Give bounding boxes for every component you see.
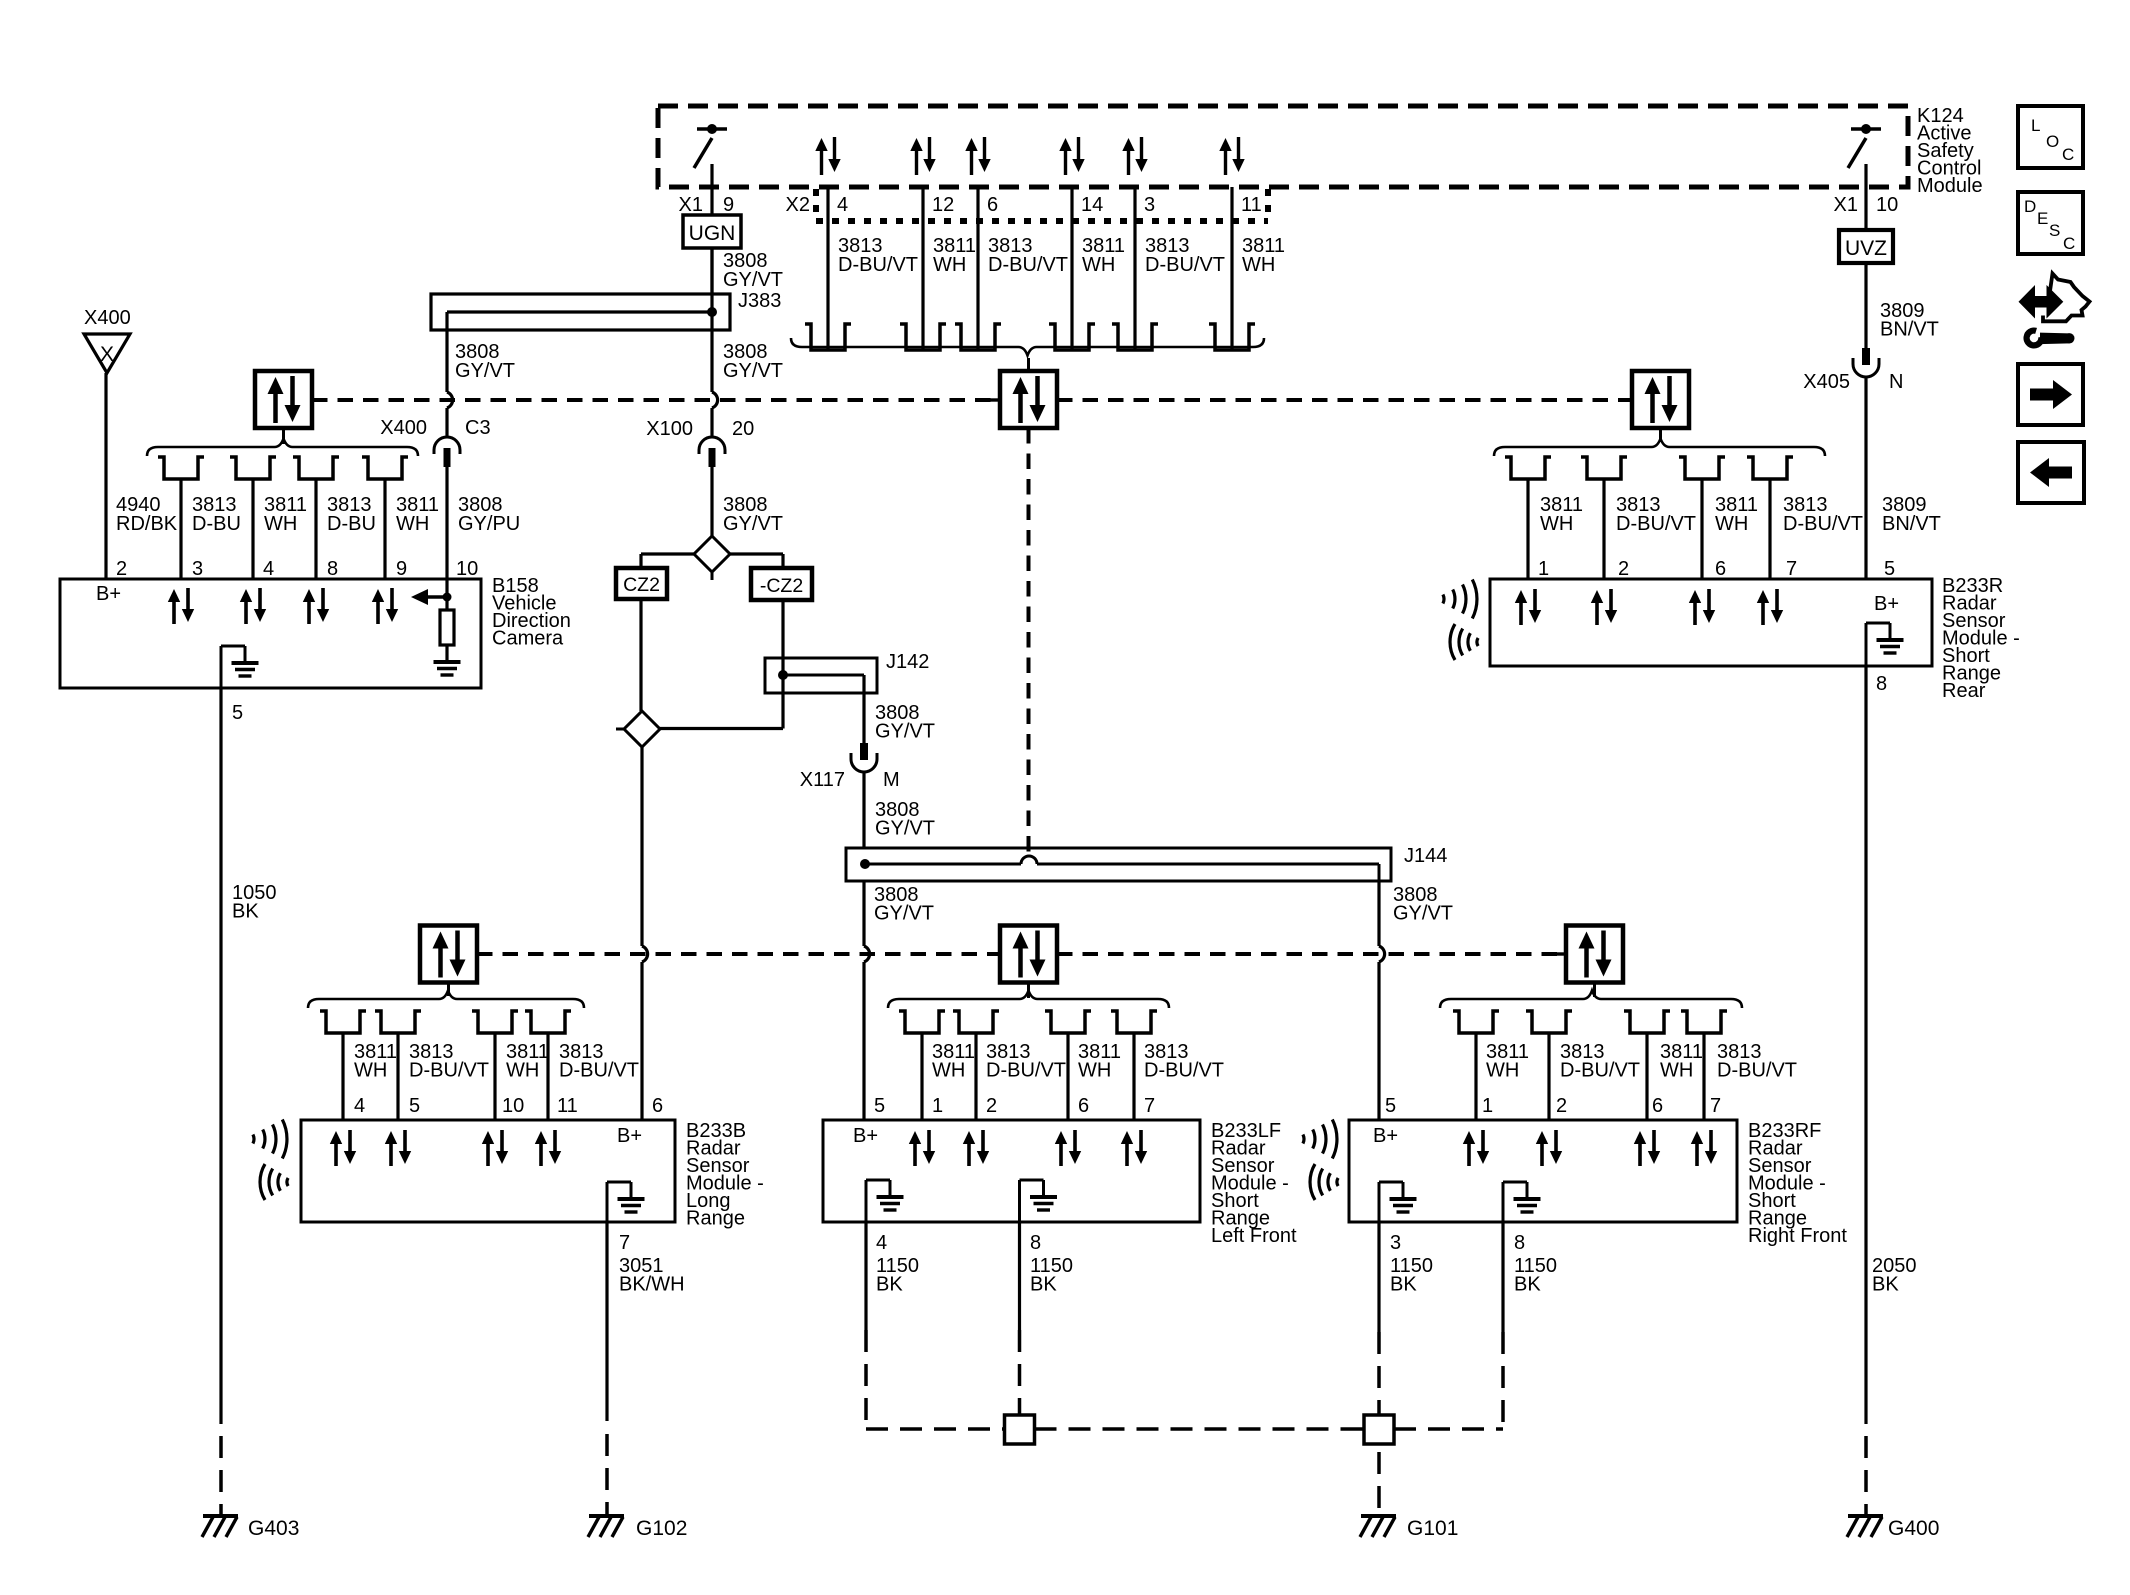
wire label 3811 WH B233R pin 1 xyxy=(1540,494,1583,535)
terminal B233B pin 11 xyxy=(525,1011,571,1033)
wire X2 pin 4 xyxy=(826,187,829,350)
wire label 3811 WH B233LF pin 1 xyxy=(932,1041,975,1082)
signal arrows B233LF pin 2 xyxy=(963,1130,989,1166)
wire label 3813 D-BU/VT X2 pin 3 xyxy=(1145,235,1225,276)
svg-text:D: D xyxy=(2024,197,2036,216)
wire label 3811 WH B233RF pin 1 xyxy=(1486,1041,1529,1082)
wire B233LF pin8 down xyxy=(1018,1222,1021,1330)
svg-text:GY/VT: GY/VT xyxy=(723,269,783,291)
svg-text:G102: G102 xyxy=(636,1517,687,1540)
ground G101 xyxy=(1360,1516,1458,1540)
junction dot J144 xyxy=(860,859,870,869)
wire B158 pin 3 xyxy=(179,479,182,579)
signal arrows B233RF pin 7 xyxy=(1691,1130,1717,1166)
wire X2 pin 11 xyxy=(1230,187,1233,350)
pin label 6 B233R xyxy=(1715,558,1726,580)
svg-text:G403: G403 xyxy=(248,1517,299,1540)
svg-text:D-BU/VT: D-BU/VT xyxy=(838,254,918,276)
svg-text:6: 6 xyxy=(1652,1095,1663,1117)
svg-text:X1: X1 xyxy=(679,194,703,216)
terminal B233R pin 2 xyxy=(1581,457,1627,479)
svg-text:GY/PU: GY/PU xyxy=(458,513,520,535)
net label UGN xyxy=(683,215,741,248)
svg-text:Right Front: Right Front xyxy=(1748,1225,1847,1247)
svg-text:J383: J383 xyxy=(738,290,781,312)
svg-text:2: 2 xyxy=(116,558,127,580)
pin label 7 B233RF xyxy=(1710,1095,1721,1117)
wire label 3813 D-BU B158 pin 3 xyxy=(192,494,241,535)
svg-text:B+: B+ xyxy=(617,1125,642,1147)
signal arrows X2 pin 3 xyxy=(1122,137,1147,175)
brace X2 bundle xyxy=(791,338,1264,356)
svg-text:1: 1 xyxy=(1482,1095,1493,1117)
wire B158 pin 8 xyxy=(314,479,317,579)
net label CZ2 xyxy=(616,568,667,599)
module B233R box xyxy=(1490,579,1932,666)
svg-text:14: 14 xyxy=(1081,194,1103,216)
pin label 1 B233LF xyxy=(932,1095,943,1117)
twisted-pair symbol X2 bundle xyxy=(990,358,1067,428)
signal arrows B233RF pin 1 xyxy=(1463,1130,1489,1166)
svg-text:J144: J144 xyxy=(1404,845,1447,867)
dashed twisted-pair bus row2 right segment xyxy=(1057,952,1566,956)
pin label 5 B233B xyxy=(409,1095,420,1117)
dashed lead to G403 xyxy=(219,1436,223,1516)
brace B233LF twisted pairs xyxy=(888,991,1169,1009)
wire B233R pin 2 xyxy=(1602,479,1605,579)
svg-text:BK: BK xyxy=(1872,1274,1899,1296)
wire label 3813 D-BU/VT B233R pin 7 xyxy=(1783,494,1863,535)
svg-text:6: 6 xyxy=(1715,558,1726,580)
svg-text:BK: BK xyxy=(1514,1274,1541,1296)
svg-text:8: 8 xyxy=(1514,1232,1525,1254)
wire label 3811 WH B233B pin 10 xyxy=(506,1041,549,1082)
signal arrows B233RF pin 2 xyxy=(1536,1130,1562,1166)
label B+ B233R xyxy=(1874,593,1899,615)
signal arrows B158 pin 9 xyxy=(372,588,398,624)
svg-text:D-BU/VT: D-BU/VT xyxy=(1783,513,1863,535)
svg-text:D-BU/VT: D-BU/VT xyxy=(988,254,1068,276)
internal ground B233RF pin 8 xyxy=(1503,1182,1541,1222)
wire J144 right down to B233RF pin 5 with hop xyxy=(1379,881,1385,1120)
inline connector X117 M xyxy=(800,743,900,791)
pin label 12 X2 xyxy=(932,194,954,216)
label B+ B158 xyxy=(96,583,121,605)
terminal B233RF pin 7 xyxy=(1681,1011,1727,1033)
wire X2 pin 14 xyxy=(1070,187,1073,350)
wire label 3808 GY/VT right of J144 xyxy=(1393,884,1453,925)
wire B233LF pin 7 xyxy=(1132,1033,1135,1120)
wire B233B pin 5 xyxy=(396,1033,399,1120)
terminal B158 pin 8 xyxy=(293,457,339,479)
terminal B233RF pin 2 xyxy=(1526,1011,1572,1033)
junction dot and arrow B158 pin 10 xyxy=(411,589,452,605)
terminal B158 pin 3 xyxy=(158,457,204,479)
signal arrows B158 pin 4 xyxy=(240,588,266,624)
svg-text:5: 5 xyxy=(874,1095,885,1117)
svg-text:RD/BK: RD/BK xyxy=(116,513,178,535)
net label UVZ xyxy=(1839,230,1893,263)
brace B233RF twisted pairs xyxy=(1440,991,1742,1009)
svg-text:2: 2 xyxy=(986,1095,997,1117)
svg-text:B+: B+ xyxy=(1373,1125,1398,1147)
wire X117 to J144 xyxy=(862,773,865,848)
svg-text:X: X xyxy=(100,343,114,366)
signal arrows B233B pin 5 xyxy=(385,1130,411,1166)
svg-text:B+: B+ xyxy=(96,583,121,605)
svg-text:GY/VT: GY/VT xyxy=(455,360,515,382)
pin labels B158 xyxy=(116,558,478,580)
pin label 5 B233R xyxy=(1884,558,1895,580)
wire label 3808 GY/VT above splice xyxy=(723,494,783,535)
terminal B233B pin 4 xyxy=(320,1011,366,1033)
wire X405 to B233R pin 5 xyxy=(1864,378,1867,579)
svg-text:3: 3 xyxy=(1390,1232,1401,1254)
module B233LF box xyxy=(823,1120,1200,1222)
svg-text:D-BU: D-BU xyxy=(327,513,376,535)
svg-text:6: 6 xyxy=(987,194,998,216)
wire B233B pin 10 xyxy=(493,1033,496,1120)
wire label 3811 WH B233B pin 4 xyxy=(354,1041,397,1082)
signal arrows B233LF pin 6 xyxy=(1055,1130,1081,1166)
svg-text:5: 5 xyxy=(409,1095,420,1117)
wire label 3811 WH B158 pin 4 xyxy=(264,494,307,535)
switch contact right inside K124 xyxy=(1848,124,1881,168)
svg-text:8: 8 xyxy=(1876,673,1887,695)
brace B233B twisted pairs xyxy=(308,991,584,1009)
wire label 3811 WH X2 pin 11 xyxy=(1242,235,1285,276)
signal arrows B233B pin 4 xyxy=(330,1130,356,1166)
terminal B233RF pin 1 xyxy=(1453,1011,1499,1033)
icon box LOC xyxy=(2018,106,2083,168)
wire splice to B233B pin 6 with hop xyxy=(642,747,648,1120)
terminal X2 pin 4 xyxy=(805,324,851,350)
wire label 3813 D-BU/VT X2 pin 6 xyxy=(988,235,1068,276)
svg-text:WH: WH xyxy=(1486,1060,1519,1082)
svg-text:-CZ2: -CZ2 xyxy=(760,575,803,597)
signal arrows B233R pin 1 xyxy=(1515,589,1541,625)
terminal B233LF pin 6 xyxy=(1045,1011,1091,1033)
splice diamond upper xyxy=(694,536,730,580)
svg-text:GY/VT: GY/VT xyxy=(723,513,783,535)
wire 2050 BK B233R to G400 xyxy=(1864,666,1867,1424)
svg-text:X100: X100 xyxy=(646,418,693,440)
wire label 1150 BK pin8 xyxy=(1030,1255,1073,1296)
pin label 4 B233B xyxy=(354,1095,365,1117)
svg-text:12: 12 xyxy=(932,194,954,216)
module B233B box xyxy=(301,1120,675,1222)
terminal B233RF pin 6 xyxy=(1624,1011,1670,1033)
pin label 11 X2 xyxy=(1241,194,1262,216)
radar waves icon B233B xyxy=(253,1120,288,1201)
svg-text:GY/VT: GY/VT xyxy=(875,721,935,743)
wire CZ2 down to splice 2 xyxy=(639,599,642,711)
pin label 3 B233RF xyxy=(1390,1232,1401,1254)
wire label 3813 D-BU/VT B233RF pin 7 xyxy=(1717,1041,1797,1082)
svg-text:7: 7 xyxy=(1144,1095,1155,1117)
twisted-pair symbol above B158 xyxy=(255,371,322,444)
brace B233R twisted pairs xyxy=(1494,439,1825,457)
wire label 3808 GY/PU xyxy=(458,494,520,535)
svg-text:L: L xyxy=(2031,116,2040,135)
wire label 3811 WH X2 pin 12 xyxy=(933,235,976,276)
dashed twisted-pair bus row2 left segment xyxy=(477,952,1000,956)
wire label 3809 BN/VT above X405 xyxy=(1880,300,1939,341)
wire label 3808 GY/VT left of J144 xyxy=(874,884,934,925)
terminal X2 pin 11 xyxy=(1209,324,1255,350)
pin label 5 B158 xyxy=(232,702,243,724)
svg-text:WH: WH xyxy=(1715,513,1748,535)
wire J383 to C3 with hop xyxy=(447,312,453,438)
signal arrows X2 pin 4 xyxy=(815,137,840,175)
ground G102 xyxy=(588,1516,687,1540)
icon vehicle direction with wrench xyxy=(2019,274,2090,346)
twisted-pair symbol above B233B xyxy=(420,926,487,997)
svg-text:7: 7 xyxy=(1786,558,1797,580)
wire X1-10 from K124 switch to UVZ xyxy=(1864,164,1867,230)
svg-text:BK: BK xyxy=(1030,1274,1057,1296)
wire B233B pin 4 xyxy=(341,1033,344,1120)
wire B158 pin 9 xyxy=(383,479,386,579)
svg-text:WH: WH xyxy=(1082,254,1115,276)
internal ground B233R pin 8 xyxy=(1866,623,1904,666)
svg-text:Camera: Camera xyxy=(492,628,564,650)
wire label 3808 GY/VT below X117 xyxy=(875,799,935,840)
connector X2 dotted outline xyxy=(816,189,1268,221)
svg-text:D-BU/VT: D-BU/VT xyxy=(986,1060,1066,1082)
wire 1050 BK B158 to G403 xyxy=(219,688,222,1424)
terminal X2 pin 6 xyxy=(955,324,1001,350)
icon box arrow right xyxy=(2018,364,2083,425)
internal ground B233RF pin 3 xyxy=(1379,1182,1417,1222)
pin label 4 B233LF xyxy=(876,1232,887,1254)
svg-text:10: 10 xyxy=(502,1095,524,1117)
svg-text:N: N xyxy=(1889,371,1903,393)
net label -CZ2 xyxy=(751,568,812,600)
wire X1-9 from K124 switch to UGN xyxy=(710,164,713,215)
svg-text:1: 1 xyxy=(932,1095,943,1117)
svg-text:G400: G400 xyxy=(1888,1517,1939,1540)
label B233LF Radar Sensor Module Short Range Left Front xyxy=(1211,1120,1297,1247)
wire J142 to X117 xyxy=(862,675,865,743)
signal arrows B233LF pin 1 xyxy=(909,1130,935,1166)
internal ground B233LF pin 4 xyxy=(866,1180,904,1222)
wire label 3808 GY/VT above X117 xyxy=(875,702,935,743)
svg-text:WH: WH xyxy=(933,254,966,276)
terminal B158 pin 4 xyxy=(230,457,276,479)
svg-text:S: S xyxy=(2049,221,2060,240)
svg-text:7: 7 xyxy=(1710,1095,1721,1117)
pin label 6 X2 xyxy=(987,194,998,216)
wire label 3809 BN/VT below X405 xyxy=(1882,494,1941,535)
svg-text:M: M xyxy=(883,769,900,791)
svg-text:BK: BK xyxy=(232,901,259,923)
terminal B233R pin 7 xyxy=(1747,457,1793,479)
pin label 6 B233B xyxy=(652,1095,663,1117)
pin label 7 B233LF xyxy=(1144,1095,1155,1117)
svg-text:GY/VT: GY/VT xyxy=(1393,903,1453,925)
wire label 1150 BK pin8 RF xyxy=(1514,1255,1557,1296)
svg-text:WH: WH xyxy=(932,1060,965,1082)
ground G400 xyxy=(1847,1516,1939,1540)
wire X100 to splice xyxy=(710,467,713,536)
dashed twisted-pair bus row1 right segment xyxy=(1057,398,1632,402)
module B158 box xyxy=(60,579,481,688)
pin label 10 B233B xyxy=(502,1095,524,1117)
wire B158 pin 4 xyxy=(251,479,254,579)
twisted-pair symbol above B233RF xyxy=(1556,926,1623,998)
svg-text:5: 5 xyxy=(232,702,243,724)
svg-text:X117: X117 xyxy=(800,769,845,791)
wire B233RF pin 6 xyxy=(1645,1033,1648,1120)
svg-text:WH: WH xyxy=(1660,1060,1693,1082)
dashed ground bus horizontal xyxy=(866,1427,1503,1431)
svg-text:2: 2 xyxy=(1618,558,1629,580)
svg-text:X1: X1 xyxy=(1834,194,1858,216)
svg-text:WH: WH xyxy=(506,1060,539,1082)
wire label 1050 BK xyxy=(232,882,277,923)
svg-text:9: 9 xyxy=(396,558,407,580)
svg-text:WH: WH xyxy=(1078,1060,1111,1082)
wire B233RF pin8 down xyxy=(1501,1222,1504,1332)
connector label X1 9 xyxy=(679,194,735,216)
signal arrows B158 pin 8 xyxy=(303,588,329,624)
splice J144 xyxy=(846,845,1447,881)
junction dot J142 xyxy=(778,670,788,680)
svg-text:2: 2 xyxy=(1556,1095,1567,1117)
svg-text:10: 10 xyxy=(456,558,478,580)
svg-text:O: O xyxy=(2046,132,2059,151)
dashed drain wire to J144 xyxy=(1027,428,1031,858)
wire label 3811 WH B233RF pin 6 xyxy=(1660,1041,1703,1082)
svg-text:CZ2: CZ2 xyxy=(623,574,660,596)
svg-text:20: 20 xyxy=(732,418,754,440)
wire label 3813 D-BU/VT B233LF pin 2 xyxy=(986,1041,1066,1082)
wire B233RF pin 2 xyxy=(1547,1033,1550,1120)
pin label 3 X2 xyxy=(1144,194,1155,216)
svg-text:8: 8 xyxy=(327,558,338,580)
signal arrows B233LF pin 7 xyxy=(1121,1130,1147,1166)
wire B233LF pin4 down xyxy=(864,1222,867,1330)
svg-text:WH: WH xyxy=(396,513,429,535)
label B+ B233RF xyxy=(1373,1125,1398,1147)
svg-text:D-BU/VT: D-BU/VT xyxy=(1717,1060,1797,1082)
label B158 Vehicle Direction Camera xyxy=(492,575,571,650)
svg-text:X2: X2 xyxy=(786,194,810,216)
svg-text:6: 6 xyxy=(1078,1095,1089,1117)
svg-text:10: 10 xyxy=(1876,194,1898,216)
svg-text:8: 8 xyxy=(1030,1232,1041,1254)
wire label 1150 BK pin4 xyxy=(876,1255,919,1296)
terminal B158 pin 9 xyxy=(362,457,408,479)
signal arrows B233R pin 2 xyxy=(1591,589,1617,625)
inline connector X405 N xyxy=(1803,348,1903,393)
dashed twisted-pair bus row1 left segment xyxy=(312,398,1000,402)
svg-text:D-BU: D-BU xyxy=(192,513,241,535)
pin label 6 B233LF xyxy=(1078,1095,1089,1117)
wire antenna to B158 pin 2 xyxy=(104,373,107,579)
internal ground B233LF pin 8 xyxy=(1020,1180,1058,1222)
wire -CZ2 down through J142 xyxy=(660,600,783,729)
splice J142 xyxy=(765,651,929,693)
wire label 3808 GY/VT right below J383 xyxy=(723,341,783,382)
svg-text:C3: C3 xyxy=(465,417,491,439)
signal arrows B233B pin 10 xyxy=(482,1130,508,1166)
module B233RF box xyxy=(1349,1120,1737,1222)
svg-text:6: 6 xyxy=(652,1095,663,1117)
internal ground B233B pin 7 xyxy=(607,1182,645,1222)
label B+ B233LF xyxy=(853,1125,878,1147)
svg-text:UGN: UGN xyxy=(689,222,736,245)
svg-text:WH: WH xyxy=(1540,513,1573,535)
wire B233B pin 11 xyxy=(546,1033,549,1120)
wire label 3811 WH X2 pin 14 xyxy=(1082,235,1125,276)
svg-text:4: 4 xyxy=(876,1232,887,1254)
wire label 3808 GY/VT left of J383 output xyxy=(455,341,515,382)
pin label 8 B233R xyxy=(1876,673,1887,695)
svg-text:Range: Range xyxy=(686,1208,745,1230)
svg-text:D-BU/VT: D-BU/VT xyxy=(559,1060,639,1082)
dashed lead B233LF pin8 xyxy=(1018,1330,1022,1415)
wire label 4940 RD/BK xyxy=(116,494,178,535)
svg-text:D-BU/VT: D-BU/VT xyxy=(1560,1060,1640,1082)
wire B233R pin 6 xyxy=(1700,479,1703,579)
wire B233LF pin 2 xyxy=(974,1033,977,1120)
svg-text:X400: X400 xyxy=(84,307,131,329)
svg-text:C: C xyxy=(2062,145,2074,164)
wire label 1150 BK pin3 xyxy=(1390,1255,1433,1296)
dashed lead to G101 xyxy=(1377,1452,1381,1512)
wire B233B pin7 to G102 xyxy=(605,1222,608,1421)
dashed lead B233LF pin4 xyxy=(864,1330,868,1429)
antenna X400 xyxy=(84,307,131,373)
pin label 1 B233RF xyxy=(1482,1095,1493,1117)
signal arrows B233RF pin 6 xyxy=(1634,1130,1660,1166)
svg-text:BK: BK xyxy=(1390,1274,1417,1296)
svg-text:C: C xyxy=(2063,234,2075,253)
signal arrows X2 pin 14 xyxy=(1059,137,1084,175)
wire label 3813 D-BU/VT B233LF pin 7 xyxy=(1144,1041,1224,1082)
wire label 3808 GY/VT below UGN xyxy=(723,250,783,291)
svg-text:D-BU/VT: D-BU/VT xyxy=(409,1060,489,1082)
splice block on ground bus right xyxy=(1364,1415,1394,1444)
signal arrows B233R pin 6 xyxy=(1689,589,1715,625)
svg-text:GY/VT: GY/VT xyxy=(723,360,783,382)
pin label 4 X2 xyxy=(837,194,848,216)
label B233RF Radar Sensor Module Short Range Right Front xyxy=(1748,1120,1847,1247)
pin label 7 B233B xyxy=(619,1232,630,1254)
wire J144 left down to B233LF pin 5 with hop xyxy=(864,881,870,1120)
wire splice to -CZ2 xyxy=(730,554,783,568)
terminal B233B pin 10 xyxy=(472,1011,518,1033)
pin label 5 B233RF xyxy=(1385,1095,1396,1117)
wire B233LF pin 6 xyxy=(1066,1033,1069,1120)
label K124 Active Safety Control Module xyxy=(1917,105,1983,197)
pin label 6 B233RF xyxy=(1652,1095,1663,1117)
wire label 3813 D-BU B158 pin 8 xyxy=(327,494,376,535)
pin label 5 B233LF xyxy=(874,1095,885,1117)
twisted-pair symbol above B233LF xyxy=(990,926,1067,999)
svg-text:9: 9 xyxy=(723,194,734,216)
svg-text:1: 1 xyxy=(1538,558,1549,580)
svg-text:WH: WH xyxy=(1242,254,1275,276)
svg-text:3: 3 xyxy=(192,558,203,580)
pin label 14 X2 xyxy=(1081,194,1103,216)
switch contact left inside K124 xyxy=(694,124,727,168)
wire label 3051 BK/WH xyxy=(619,1255,685,1296)
svg-text:Left Front: Left Front xyxy=(1211,1225,1297,1247)
svg-text:BN/VT: BN/VT xyxy=(1882,513,1941,535)
